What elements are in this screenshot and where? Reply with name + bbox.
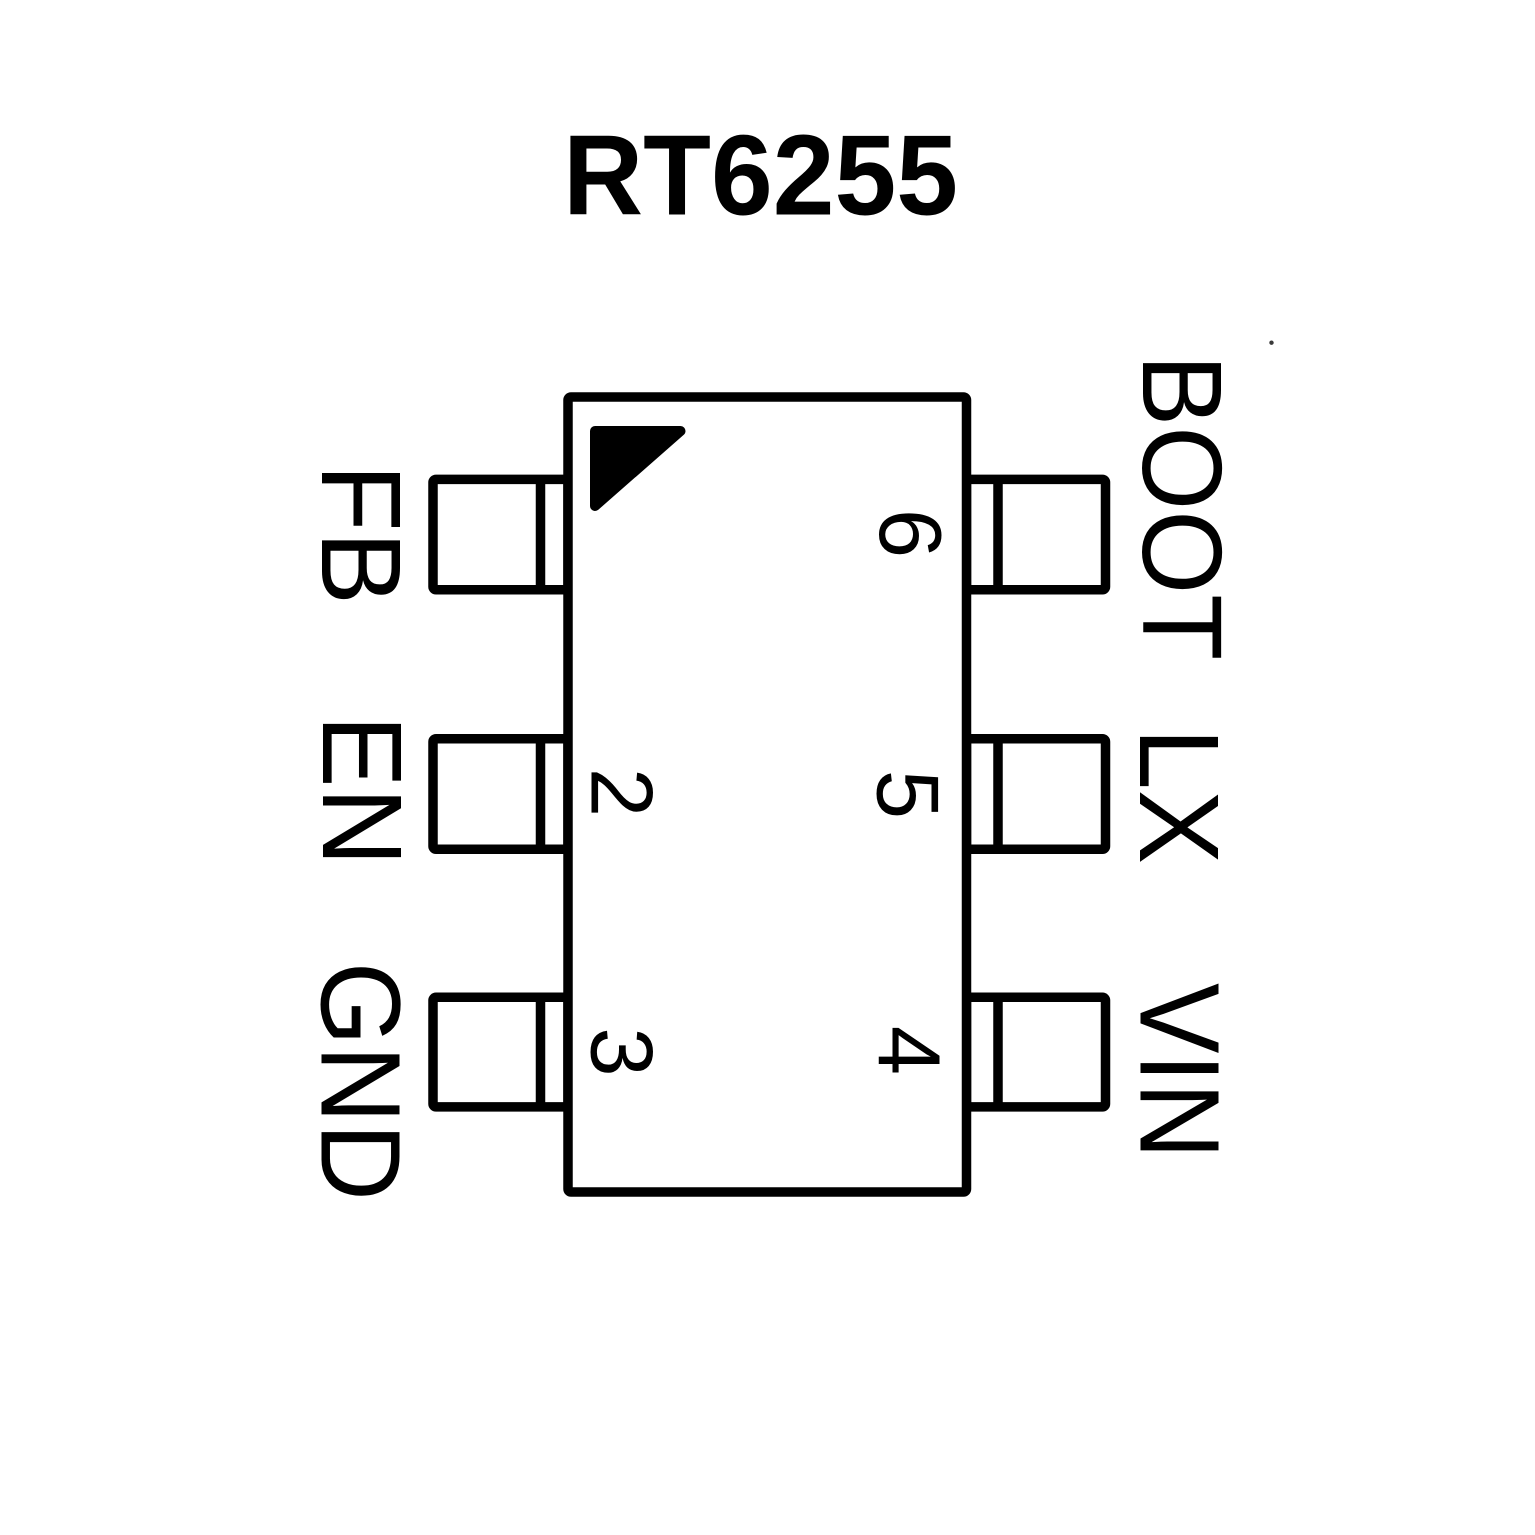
pin 6 pad (BOOT) [967,479,1106,589]
pin 2 pad (EN) [433,739,568,850]
svg-text:4: 4 [860,1026,959,1075]
pin 3 pad (GND) [433,997,568,1107]
svg-text:RT6255: RT6255 [563,111,958,239]
pin 1 marker [595,431,681,506]
svg-text:3: 3 [573,1027,672,1076]
pin 4 pad (VIN) [967,997,1106,1107]
svg-text:2: 2 [573,768,672,817]
pin 1 pad (FB) [433,479,568,589]
svg-text:FB: FB [297,464,424,605]
svg-text:6: 6 [861,509,960,558]
svg-text:LX: LX [1115,728,1242,865]
svg-text:GND: GND [297,962,424,1201]
svg-text:5: 5 [859,770,958,819]
stray dot [1269,341,1273,345]
svg-text:EN: EN [298,715,425,866]
svg-text:VIN: VIN [1116,983,1243,1159]
IC body U1 [568,397,967,1192]
pin 5 pad (LX) [967,739,1106,850]
svg-text:BOOT: BOOT [1118,354,1245,660]
